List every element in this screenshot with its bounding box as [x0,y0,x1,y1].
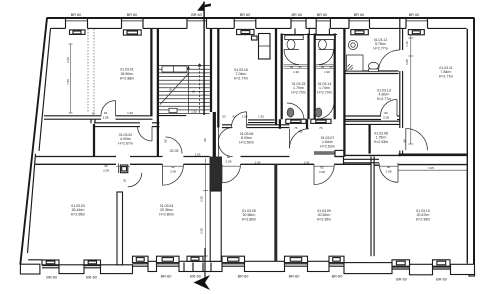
svg-text:92: 92 [104,164,108,168]
svg-text:2.08: 2.08 [226,159,232,163]
svg-text:BR 60: BR 60 [191,13,202,17]
svg-text:01.03.0326.44m²H=2.95m: 01.03.0326.44m²H=2.95m [71,204,85,216]
svg-text:01.03.0126.50m²H=2.88m: 01.03.0126.50m²H=2.88m [120,68,134,81]
svg-text:7.50: 7.50 [66,79,70,85]
svg-text:01.03.167.04m²H=2.77m: 01.03.167.04m²H=2.77m [234,68,248,80]
svg-text:92: 92 [171,165,175,169]
svg-text:76: 76 [319,126,323,130]
svg-text:32: 32 [290,65,294,69]
svg-text:32: 32 [321,65,325,69]
svg-text:90: 90 [92,111,96,115]
svg-text:18: 18 [192,90,196,94]
svg-text:BR 60: BR 60 [71,13,82,17]
svg-text:1.92: 1.92 [191,109,197,113]
svg-text:BR-60: BR-60 [238,275,249,279]
svg-text:92: 92 [232,115,236,119]
svg-text:01.03.1020.67m²H=2.95m: 01.03.1020.67m²H=2.95m [416,209,430,221]
svg-text:BR 60: BR 60 [409,13,420,17]
svg-text:1.93: 1.93 [195,152,201,156]
svg-text:01.03.0920.52m²H=2.95m: 01.03.0920.52m²H=2.95m [317,209,331,221]
svg-text:BR 60: BR 60 [354,13,365,17]
svg-text:01.03.0520.56m²H=2.80m: 01.03.0520.56m²H=2.80m [242,209,256,221]
svg-text:01.03.068.09m²H=2.50m: 01.03.068.09m²H=2.50m [239,132,253,144]
svg-text:2.08: 2.08 [103,115,109,119]
svg-text:90: 90 [203,138,207,142]
svg-text:1.92: 1.92 [304,160,310,164]
svg-text:BR-60: BR-60 [289,275,300,279]
svg-text:BR-60: BR-60 [436,278,447,282]
svg-text:BR-60: BR-60 [86,275,97,279]
svg-text:1.93: 1.93 [255,160,261,164]
svg-text:01.03.151.79m²H=2.70m: 01.03.151.79m²H=2.70m [291,82,305,94]
svg-text:2.08: 2.08 [319,170,325,174]
svg-text:1.35: 1.35 [258,115,264,119]
svg-text:01.03.141.74m²H=2.70m: 01.03.141.74m²H=2.70m [317,82,331,94]
svg-text:2.08: 2.08 [383,116,389,120]
svg-text:1.90: 1.90 [324,70,330,74]
svg-text:92: 92 [320,165,324,169]
svg-text:BR-60: BR-60 [46,275,57,279]
svg-text:01.03.0420.36m²H=2.80m: 01.03.0420.36m²H=2.80m [159,204,173,216]
svg-text:92: 92 [122,179,126,183]
svg-text:90: 90 [164,139,168,143]
svg-text:BR 60: BR 60 [240,13,251,17]
svg-text:02.03: 02.03 [170,149,179,153]
svg-text:90: 90 [403,139,407,143]
svg-text:53: 53 [222,115,226,119]
svg-text:BR-60: BR-60 [396,278,407,282]
svg-text:1.90: 1.90 [293,70,299,74]
svg-text:76: 76 [294,126,298,130]
svg-text:2.55: 2.55 [200,228,204,234]
svg-text:90: 90 [384,111,388,115]
svg-text:01.03.071.64m²H=2.63m: 01.03.071.64m²H=2.63m [320,136,334,148]
svg-text:1.92: 1.92 [127,111,133,115]
svg-text:01.03.117.84m²H=2.77m: 01.03.117.84m²H=2.77m [439,66,453,78]
svg-text:3.35: 3.35 [428,166,434,170]
svg-text:BR 60: BR 60 [127,13,138,17]
svg-text:90: 90 [387,165,391,169]
svg-text:R5: R5 [299,130,303,134]
svg-text:2.55: 2.55 [200,196,204,202]
svg-text:01.03.024.00m²H=2.67m: 01.03.024.00m²H=2.67m [118,133,132,145]
svg-text:37: 37 [298,65,302,69]
svg-text:2.50: 2.50 [66,57,70,63]
svg-text:2.08: 2.08 [242,115,248,119]
svg-text:BR 60: BR 60 [292,13,303,17]
svg-text:2.08: 2.08 [170,170,176,174]
svg-text:6.85: 6.85 [405,59,409,65]
svg-text:92: 92 [227,155,231,159]
svg-text:BR-60: BR-60 [161,275,172,279]
svg-text:01.03.081.75m²H=2.63m: 01.03.081.75m²H=2.63m [374,132,388,144]
svg-text:2.08: 2.08 [386,170,392,174]
svg-text:1.10: 1.10 [405,41,409,47]
svg-text:2.08: 2.08 [103,168,109,172]
svg-text:01.03.134.60m²H=2.77m: 01.03.134.60m²H=2.77m [377,89,391,101]
svg-text:01.03.125.75m²H=2.77m: 01.03.125.75m²H=2.77m [373,38,387,50]
svg-text:BR 60: BR 60 [317,13,328,17]
svg-text:18: 18 [169,88,173,92]
svg-text:BR-60: BR-60 [332,275,343,279]
svg-text:37: 37 [329,65,333,69]
svg-text:BR-60: BR-60 [190,275,201,279]
